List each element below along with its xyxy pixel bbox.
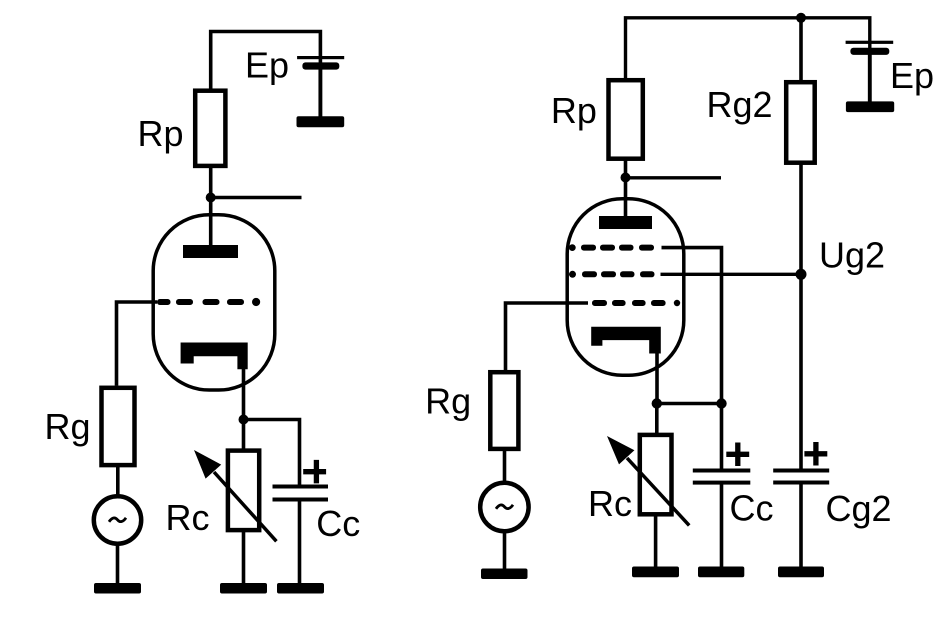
- wire: Rc to ground: [242, 530, 246, 584]
- resistor Rp: [195, 91, 225, 166]
- svg-text:Cc: Cc: [730, 487, 774, 528]
- svg-text:Rc: Rc: [588, 483, 632, 524]
- AC source: [94, 496, 141, 543]
- wire: Rp bottom to plate node: [624, 158, 628, 178]
- wire: Cc node to Cc plates: [720, 404, 724, 469]
- plus sign Cc: [303, 460, 326, 484]
- wire: Rc to ground (right): [654, 514, 658, 567]
- wire: AC to ground (right): [503, 532, 507, 569]
- AC source (right): [480, 483, 528, 531]
- wire: Rg to AC source (right): [503, 448, 507, 482]
- cathode: [181, 343, 248, 370]
- svg-text:Rc: Rc: [166, 497, 210, 538]
- wire: Rp bottom to plate node: [209, 165, 213, 198]
- resistor Rg2: [786, 82, 815, 163]
- svg-text:Rg: Rg: [45, 406, 91, 447]
- ground (battery Ep right): [846, 101, 894, 112]
- wire: g2 to Ug2 node: [661, 273, 802, 276]
- svg-text:Rp: Rp: [138, 113, 184, 154]
- plate (anode) bar: [183, 245, 238, 258]
- junction dot: g3/Cc node: [716, 398, 726, 408]
- wire: cathode node to Rc (right): [655, 404, 659, 435]
- wire: cathode node to Rc: [242, 420, 246, 450]
- ground (AC right): [481, 569, 528, 580]
- wire: g3 to cathode node: [662, 248, 722, 404]
- ground (AC source): [94, 583, 141, 594]
- wire: plate lead into tube: [624, 178, 628, 218]
- grid g3 dashes: [569, 244, 654, 251]
- svg-text:Ug2: Ug2: [819, 235, 885, 276]
- wire: battery to ground: [318, 69, 322, 117]
- wire: rail down to Rg2: [799, 18, 803, 81]
- grid g1 dashes: [157, 298, 260, 306]
- grid g1 dashes: [592, 300, 680, 306]
- svg-text:Rg: Rg: [425, 381, 471, 422]
- wire: Rg2 bottom to Cg2 through Ug2: [799, 161, 803, 469]
- ground (Cg2): [778, 567, 824, 578]
- plus sign Cc (right): [726, 443, 749, 467]
- battery Ep: thin plate: [297, 56, 344, 59]
- ground (Rc right): [632, 567, 679, 578]
- ground (Cc right): [698, 567, 744, 578]
- wire: Rg to AC source: [116, 465, 120, 495]
- arrow of Rc (right): [627, 458, 689, 525]
- wire: cathode node to Cc: [244, 420, 300, 485]
- resistor Rg (right): [490, 372, 518, 449]
- capacitor Cc plates (right): [693, 469, 751, 473]
- junction dot: plate node (right): [621, 173, 631, 183]
- svg-text:Ep: Ep: [890, 55, 934, 96]
- svg-text:Rp: Rp: [551, 90, 597, 131]
- svg-text:Ep: Ep: [245, 45, 289, 86]
- wire: anode output lead (right): [626, 176, 722, 179]
- wire: Cc to ground: [298, 501, 302, 584]
- ground (battery Ep): [297, 116, 345, 127]
- wire: B+ rail from Rp top to battery Ep: [626, 18, 870, 79]
- junction dot: cathode node (right): [652, 398, 662, 408]
- svg-text:Cc: Cc: [316, 503, 360, 544]
- wire: cathode node to Cc node: [657, 402, 722, 405]
- wire: g1 input: [506, 303, 589, 371]
- junction dot: B+ rail / Rg2: [796, 13, 806, 23]
- junction dot: cathode node: [239, 415, 249, 425]
- tube V2 envelope: [567, 199, 684, 375]
- wire: battery to ground (right): [868, 55, 872, 102]
- wire: B+ rail from Rp top to battery Ep: [211, 32, 321, 92]
- grid g2 dashes: [569, 271, 655, 278]
- wire: cathode lead: [242, 368, 246, 420]
- resistor Rg: [102, 388, 135, 465]
- junction dot: Ug2 node: [796, 269, 807, 280]
- capacitor Cg2 plates: [773, 469, 829, 473]
- wire: AC source to ground: [116, 545, 120, 584]
- wire: anode output lead: [211, 196, 302, 199]
- cathode (right): [591, 327, 661, 354]
- wire: grid input: [117, 302, 158, 386]
- battery Ep right: thin plate: [846, 41, 894, 44]
- capacitor Cc plates: [273, 485, 329, 489]
- arrow of Rc: [214, 472, 276, 541]
- ground (Rc): [220, 583, 267, 594]
- battery Ep: thick plate: [302, 62, 339, 69]
- tube V1 envelope: [153, 215, 275, 390]
- plus sign Cg2: [804, 442, 827, 466]
- wire: plate lead into tube: [209, 198, 213, 247]
- wire: Cc to ground (right): [720, 484, 724, 567]
- battery Ep right: thick plate: [850, 48, 889, 55]
- svg-text:Rg2: Rg2: [707, 84, 773, 125]
- resistor Rc (right, variable): [640, 435, 672, 514]
- plate (anode) bar (right): [599, 216, 652, 229]
- wire: cathode lead (right): [655, 352, 659, 404]
- resistor Rp (right): [609, 80, 643, 159]
- junction dot: plate node: [206, 193, 216, 203]
- resistor Rc (variable): [228, 451, 259, 530]
- svg-text:Cg2: Cg2: [826, 488, 892, 529]
- ground (Cc): [277, 583, 324, 594]
- wire: Cg2 to ground: [799, 484, 803, 567]
